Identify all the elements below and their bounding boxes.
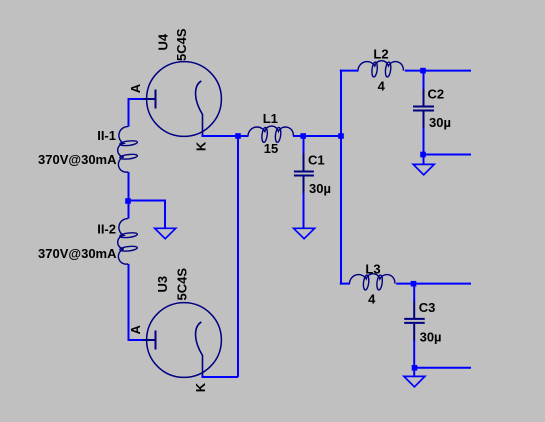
svg-text:U3: U3: [155, 276, 170, 293]
svg-text:C1: C1: [308, 153, 325, 168]
svg-text:30µ: 30µ: [429, 115, 451, 130]
svg-text:A: A: [128, 83, 143, 93]
svg-text:K: K: [193, 382, 208, 392]
svg-text:L2: L2: [373, 47, 388, 62]
svg-text:370V@30mA: 370V@30mA: [38, 152, 117, 167]
svg-text:4: 4: [378, 79, 386, 94]
svg-text:A: A: [128, 325, 143, 335]
svg-text:II-2: II-2: [97, 221, 116, 236]
svg-text:5C4S: 5C4S: [174, 28, 189, 61]
svg-text:L3: L3: [365, 262, 380, 277]
svg-text:C3: C3: [419, 300, 436, 315]
svg-text:370V@30mA: 370V@30mA: [38, 246, 117, 261]
svg-text:30µ: 30µ: [420, 330, 442, 345]
svg-text:L1: L1: [263, 111, 278, 126]
svg-text:4: 4: [368, 292, 376, 307]
svg-text:15: 15: [264, 141, 278, 156]
svg-text:30µ: 30µ: [309, 181, 331, 196]
svg-text:C2: C2: [428, 87, 445, 102]
svg-text:U4: U4: [156, 33, 171, 50]
svg-text:K: K: [193, 141, 208, 151]
svg-text:II-1: II-1: [97, 128, 116, 143]
svg-text:5C4S: 5C4S: [175, 268, 190, 301]
